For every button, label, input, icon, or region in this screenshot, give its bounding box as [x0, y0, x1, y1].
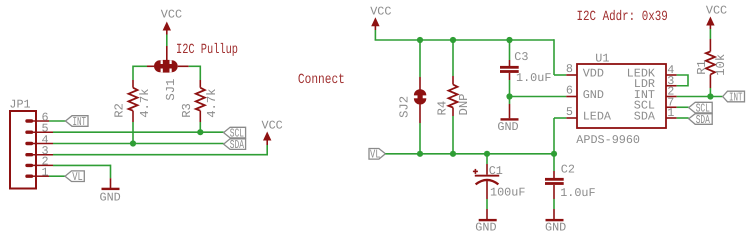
svg-text:VL: VL — [370, 148, 381, 162]
net tag VL (JP1) — [65, 170, 84, 184]
svg-text:I2C Pullup: I2C Pullup — [176, 42, 238, 58]
supply VCC (top right) — [706, 4, 727, 30]
svg-text:DNP: DNP — [457, 94, 471, 116]
wire SJ2 to VL line — [419, 123, 421, 154]
wire R1 to junction — [709, 88, 711, 97]
svg-text:VL: VL — [72, 170, 83, 184]
net tag SDA (right) — [689, 113, 713, 127]
wire C2 to GND — [553, 199, 555, 209]
net tag SCL (right) — [689, 102, 713, 116]
wire R2 to SDA line — [132, 122, 134, 144]
net tag VL (right section) — [369, 148, 385, 162]
wire VL line to C1 — [486, 154, 488, 164]
svg-text:SDA: SDA — [634, 109, 656, 123]
pin 1 pad — [25, 166, 49, 180]
solder jumper SJ1 — [147, 46, 189, 101]
svg-text:INT: INT — [729, 90, 743, 104]
wire pin2 to GND — [53, 165, 111, 179]
wire R4 to VL line — [452, 116, 454, 154]
capacitor C2 1.0uF — [545, 163, 596, 201]
solder jumper SJ2 — [397, 77, 427, 123]
svg-text:APDS-9960: APDS-9960 — [576, 133, 640, 147]
svg-text:VCC: VCC — [370, 4, 391, 18]
pin 4 LEDK — [666, 63, 677, 77]
wire LEDA down — [554, 118, 566, 154]
svg-text:SJ2: SJ2 — [397, 96, 411, 118]
ground GND (below C3) — [497, 104, 518, 134]
svg-text:GND: GND — [475, 220, 496, 234]
wire pin4 to SDA tag (SDA net) — [53, 143, 224, 145]
wire junction down — [509, 97, 511, 105]
svg-text:4.7k: 4.7k — [205, 89, 219, 118]
pin 1 SDA — [666, 106, 677, 120]
resistor R2 4.7k — [113, 80, 152, 122]
junction R3/SCL — [197, 129, 203, 135]
wire bus to C3 — [509, 40, 511, 60]
pin 2 INT — [666, 85, 677, 99]
connector JP1 — [9, 98, 36, 189]
net tag SDA (left) — [224, 138, 246, 152]
svg-text:VCC: VCC — [706, 4, 727, 18]
svg-text:GND: GND — [545, 220, 566, 234]
svg-text:GND: GND — [497, 120, 518, 134]
pin 5 pad — [25, 122, 53, 136]
wire LEDK-LDR loop — [677, 75, 688, 86]
svg-text:VCC: VCC — [161, 8, 182, 22]
junction R4/VL line — [450, 151, 456, 157]
svg-text:SJ1: SJ1 — [164, 79, 178, 101]
junction C3/GND — [506, 93, 512, 99]
wire SJ1 left to R2 — [133, 66, 147, 81]
wire pin6 to INT tag — [49, 120, 66, 122]
wire R1 to VCC — [709, 29, 711, 39]
pin 2 pad — [25, 155, 53, 169]
capacitor C3 1.0uF — [500, 50, 551, 85]
svg-text:R1: R1 — [695, 60, 709, 75]
svg-text:GND: GND — [100, 190, 121, 204]
net tag SCL (left) — [224, 127, 246, 141]
pin 6 GND — [566, 84, 577, 98]
svg-text:5: 5 — [566, 105, 573, 119]
wire bus to SJ2 — [419, 40, 421, 77]
svg-text:I2C Addr: 0x39: I2C Addr: 0x39 — [577, 9, 668, 25]
svg-text:R3: R3 — [180, 103, 194, 118]
wire VCC bus — [375, 30, 567, 75]
svg-text:C2: C2 — [561, 163, 575, 177]
ground GND (below JP1 pin2) — [100, 178, 121, 204]
svg-text:INT: INT — [73, 115, 87, 129]
svg-text:LEDA: LEDA — [583, 109, 612, 123]
wire C3 to GND/pin6 — [509, 80, 511, 97]
svg-text:8: 8 — [566, 62, 573, 76]
wire VL line — [385, 153, 554, 155]
wire pin1 to VL tag — [49, 175, 65, 177]
svg-text:1: 1 — [667, 106, 674, 120]
svg-text:4.7k: 4.7k — [138, 89, 152, 118]
svg-text:100uF: 100uF — [490, 185, 525, 199]
supply VCC (mid) — [262, 118, 283, 145]
svg-text:10k: 10k — [714, 54, 728, 76]
junction bus/R4 — [450, 37, 456, 43]
svg-text:C3: C3 — [514, 50, 528, 64]
supply VCC (right top-left) — [370, 4, 391, 30]
svg-text:1.0uF: 1.0uF — [516, 71, 551, 85]
resistor R4 DNP — [435, 76, 470, 116]
wire VCC to SJ1 — [166, 35, 168, 47]
wire pin2 INT net — [677, 96, 723, 98]
pin 4 pad — [25, 133, 53, 147]
svg-text:VCC: VCC — [262, 118, 283, 132]
pin 8 VDD — [566, 62, 577, 76]
junction C1/VL line — [484, 151, 490, 157]
junction bus/SJ2 — [417, 37, 423, 43]
resistor R1 10k — [695, 39, 728, 88]
supply VCC (left, above SJ1) — [161, 8, 182, 35]
wire pin1 to SDA tag — [677, 117, 689, 119]
junction INT/R1 — [707, 93, 713, 99]
junction R2/SDA — [130, 140, 136, 146]
svg-text:SDA: SDA — [696, 113, 711, 127]
net tag INT (right) — [723, 90, 745, 104]
junction C2/VL line/LEDA — [551, 151, 557, 157]
ground GND (below C1) — [475, 209, 496, 234]
wire VL line to C2 — [553, 154, 555, 171]
svg-text:1: 1 — [42, 166, 49, 180]
ground GND (below C2) — [545, 209, 566, 234]
svg-text:1.0uF: 1.0uF — [560, 186, 595, 200]
pin 7 SCL — [666, 95, 677, 109]
svg-text:JP1: JP1 — [9, 98, 30, 112]
wire pin3 to VCC (mid) — [53, 145, 267, 156]
capacitor C1 100uF polarized — [473, 164, 526, 200]
wire C1 to GND — [486, 199, 488, 209]
wire R3 to SCL line — [199, 122, 201, 132]
svg-text:Connect: Connect — [298, 72, 345, 88]
wire bus to R4 — [452, 40, 454, 76]
pin 5 LEDA — [566, 105, 577, 119]
svg-text:GND: GND — [583, 88, 604, 102]
resistor R3 4.7k — [180, 80, 219, 122]
svg-text:C1: C1 — [489, 164, 503, 178]
svg-text:R2: R2 — [113, 103, 127, 118]
junction bus/C3 — [506, 37, 512, 43]
svg-text:VDD: VDD — [583, 66, 604, 80]
wire junction to U1 pin6 — [510, 96, 567, 98]
svg-text:SDA: SDA — [230, 138, 245, 152]
svg-text:6: 6 — [566, 84, 573, 98]
junction SJ2/VL line — [417, 151, 423, 157]
pin 3 pad — [25, 144, 53, 158]
pin 6 pad — [25, 110, 49, 124]
net tag INT (JP1) — [66, 115, 89, 129]
IC U1 APDS-9960 — [576, 52, 666, 147]
wire pin7 to SCL tag — [677, 106, 689, 108]
pin 3 LDR — [666, 74, 677, 88]
wire SJ1 right to R3 — [189, 66, 201, 81]
svg-text:R4: R4 — [435, 101, 449, 116]
wire pin5 to SCL tag (SCL net) — [53, 131, 224, 133]
